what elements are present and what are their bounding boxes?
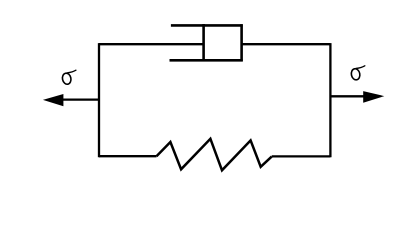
dashpot damper cylinder — [170, 24, 243, 61]
spring — [157, 139, 272, 171]
wire left vertical — [98, 43, 100, 157]
wire top-left (rod into dashpot) — [99, 43, 204, 45]
label sigma right — [350, 66, 364, 81]
arrow right stress (shaft) — [330, 91, 384, 103]
wire bottom-left — [99, 155, 157, 157]
wire top-right (rod from dashpot) — [242, 43, 331, 45]
arrow left stress (shaft) — [43, 94, 99, 106]
wire right vertical — [329, 43, 331, 157]
wire bottom-right — [272, 155, 331, 157]
label sigma left — [61, 70, 75, 85]
